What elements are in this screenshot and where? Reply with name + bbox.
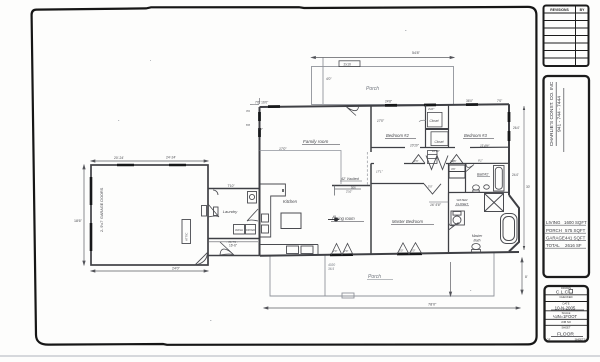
- svg-text:18'6": 18'6": [74, 219, 83, 223]
- svg-text:36'0": 36'0": [466, 99, 473, 103]
- svg-text:78'0": 78'0": [428, 302, 437, 306]
- bottom dimension 78'0": [264, 302, 520, 309]
- scanner strip bottom: [0, 355, 600, 357]
- company name vertical text: [549, 81, 564, 152]
- window marks west wall: [258, 112, 261, 137]
- title block: [545, 286, 589, 342]
- laundry walls: [208, 189, 260, 256]
- svg-text:20'-24': 20'-24': [114, 156, 124, 160]
- svg-text:CHECKED: CHECKED: [559, 295, 572, 299]
- closet arrow scribble: [419, 120, 426, 121]
- svg-text:Kitchen: Kitchen: [283, 199, 298, 204]
- company block: [544, 76, 590, 277]
- bedroom2 door triangle: [412, 155, 425, 164]
- svg-text:C.L.C: C.L.C: [556, 290, 569, 296]
- top edge small dims: [255, 99, 502, 105]
- hall bottom wall: [371, 162, 509, 164]
- svg-text:Closet: Closet: [435, 140, 444, 144]
- svg-text:441 SQFT: 441 SQFT: [565, 236, 586, 241]
- south wall door triangles dining: [331, 243, 353, 255]
- bath2 toilet: [473, 185, 480, 192]
- svg-text:2'9": 2'9": [333, 249, 337, 253]
- porch top dimension 54'0": [312, 51, 455, 81]
- svg-text:CLOSET: CLOSET: [456, 202, 469, 206]
- svg-text:7'6" 16'0": 7'6" 16'0": [255, 101, 268, 105]
- svg-text:3'0": 3'0": [399, 249, 403, 253]
- svg-text:2- 9'x7' GARAGE DOORS: 2- 9'x7' GARAGE DOORS: [100, 187, 104, 232]
- svg-text:JOB NO: JOB NO: [561, 320, 571, 324]
- svg-text:42' Vaulted: 42' Vaulted: [341, 177, 360, 181]
- svg-text:8'1": 8'1": [478, 159, 484, 163]
- garage window marks top wall: [117, 164, 186, 166]
- hall top wall: [371, 146, 509, 148]
- svg-text:54'8": 54'8": [412, 51, 421, 55]
- svg-text:30': 30': [526, 185, 531, 189]
- master bedroom label: [391, 202, 449, 224]
- svg-text:16' 5'8": 16' 5'8": [430, 203, 442, 207]
- svg-text:WASH: WASH: [235, 228, 243, 232]
- washer dryer: [234, 192, 257, 235]
- svg-text:941 - 744 - 7444: 941 - 744 - 7444: [557, 96, 563, 132]
- bath2 label: [477, 173, 490, 177]
- svg-text:2'10": 2'10": [346, 190, 352, 194]
- svg-text:8': 8': [525, 275, 528, 279]
- svg-text:Bath#2: Bath#2: [477, 173, 488, 177]
- bath2 sink: [484, 185, 490, 189]
- title block handwriting: [551, 290, 584, 338]
- bath2 door arc: [466, 164, 474, 172]
- right edge dims: [512, 106, 531, 250]
- entry door arc: [220, 242, 234, 255]
- svg-text:4'6": 4'6": [451, 167, 456, 171]
- bedroom2 label: [377, 119, 420, 147]
- svg-text:GARAGE: GARAGE: [546, 236, 565, 241]
- water heater in garage: [182, 206, 218, 244]
- svg-text:2'6": 2'6": [414, 159, 419, 163]
- svg-text:REVISIONS: REVISIONS: [550, 8, 569, 12]
- svg-text:LIVING: LIVING: [546, 220, 561, 225]
- kitchen counters left: [261, 184, 286, 237]
- south porch label: [328, 263, 393, 280]
- svg-text:575 SQFT: 575 SQFT: [565, 228, 586, 233]
- corner tick NW: [250, 98, 260, 105]
- bath2 walls: [449, 163, 510, 192]
- master toilet: [472, 244, 481, 253]
- svg-text:36.5: 36.5: [328, 267, 334, 271]
- laundry door right: [247, 209, 258, 221]
- family room label: [279, 139, 340, 151]
- garage left dimension 18'6": [74, 165, 85, 265]
- svg-text:SHEET: SHEET: [562, 326, 571, 330]
- area summary text: [545, 220, 587, 248]
- garage walls: [91, 165, 208, 265]
- svg-text:Laundry: Laundry: [223, 209, 238, 214]
- svg-text:BY: BY: [580, 8, 585, 12]
- master tub: [501, 214, 518, 244]
- window marks north wall: [268, 105, 478, 107]
- left edge dim marks family room: [246, 109, 263, 131]
- dining bar counter: [332, 185, 370, 195]
- south wall door triangles master: [397, 243, 422, 255]
- svg-text:7'0": 7'0": [497, 99, 502, 103]
- dashed ceiling line: [366, 152, 368, 185]
- svg-text:Bedroom #2: Bedroom #2: [386, 133, 409, 138]
- garage top dimension: [91, 155, 208, 162]
- linen closet: [449, 165, 465, 178]
- svg-text:17'0": 17'0": [279, 147, 287, 151]
- svg-text:5'0": 5'0": [428, 185, 433, 189]
- svg-text:6'8: 6'8: [246, 123, 250, 127]
- south porch outline: [270, 253, 494, 298]
- interior wall dining/master: [370, 106, 372, 256]
- svg-text:CHARLIE'S CONST. CO. INC: CHARLIE'S CONST. CO. INC: [549, 81, 555, 146]
- bedroom2 closet wall: [426, 105, 449, 148]
- svg-text:10'10": 10'10": [410, 143, 420, 147]
- kitchen island: [281, 213, 301, 229]
- svg-text:24'0": 24'0": [172, 267, 181, 271]
- master bedroom door triangle: [424, 184, 441, 194]
- svg-text:PORCH: PORCH: [546, 228, 562, 233]
- laundry bottom dim line: [209, 241, 258, 243]
- svg-text:Bath: Bath: [474, 239, 481, 243]
- garage door marks on left wall: [90, 177, 93, 251]
- svg-text:24.0': 24.0': [512, 173, 519, 177]
- svg-text:Master Bedroom: Master Bedroom: [392, 219, 423, 224]
- master bath door arc: [449, 222, 459, 230]
- closet labels: [428, 107, 484, 164]
- svg-text:506: 506: [351, 185, 356, 189]
- svg-text:4'0": 4'0": [326, 77, 332, 81]
- svg-text:24'8": 24'8": [385, 100, 392, 104]
- svg-text:DRYER: DRYER: [246, 228, 255, 232]
- kitchen family divider: [260, 151, 342, 185]
- water closet room and toilet: [449, 193, 465, 254]
- scan speckles: [118, 30, 471, 321]
- kitchen counters bottom: [260, 245, 318, 255]
- house exterior walls: [260, 104, 520, 256]
- bedroom3 label: [463, 133, 494, 148]
- svg-text:Master: Master: [472, 234, 483, 238]
- bath2 tub: [494, 166, 505, 192]
- north porch outline: [312, 58, 454, 105]
- svg-text:7'10": 7'10": [227, 184, 234, 188]
- svg-text:ATTIC: ATTIC: [185, 232, 189, 241]
- svg-text:2616 SF: 2616 SF: [565, 243, 582, 248]
- garage rear door arc: [195, 253, 208, 266]
- dining ceiling fan mark: [328, 215, 339, 222]
- right porch vertical dimension: [449, 258, 528, 296]
- porch header box 2x10: [339, 61, 360, 67]
- svg-text:12'10": 12'10": [432, 149, 441, 153]
- svg-text:Porch: Porch: [366, 86, 379, 92]
- hall closet shelves: [428, 151, 438, 164]
- revisions table: [544, 6, 589, 67]
- svg-text:SHEETS: SHEETS: [575, 338, 586, 342]
- garage bottom dimension 24'0": [91, 267, 208, 273]
- sliding door marks south wall: [330, 254, 422, 255]
- svg-text:26.0': 26.0': [513, 126, 520, 130]
- border frame: [32, 7, 537, 345]
- master closet strip walls: [371, 170, 424, 184]
- svg-text:TOTAL: TOTAL: [546, 243, 560, 248]
- svg-text:6'0": 6'0": [258, 127, 263, 131]
- svg-text:Closet: Closet: [430, 119, 439, 123]
- vaulted label: [340, 177, 362, 181]
- svg-text:- 4'0 7'6 -: - 4'0 7'6 -: [226, 240, 238, 244]
- svg-text:2x10: 2x10: [344, 62, 351, 66]
- svg-text:3'0": 3'0": [411, 249, 415, 253]
- svg-text:Family room: Family room: [303, 139, 328, 144]
- svg-text:17'0": 17'0": [377, 119, 385, 123]
- svg-text:3'0: 3'0: [246, 109, 250, 113]
- laundry labels: [223, 184, 255, 248]
- svg-text:Bedroom #3: Bedroom #3: [464, 133, 487, 138]
- svg-text:OF: OF: [547, 338, 551, 342]
- hall closet bifold doors: [426, 156, 448, 170]
- porch door arc: [347, 107, 359, 116]
- svg-text:11'4½": 11'4½": [480, 144, 490, 148]
- svg-text:24'-24': 24'-24': [166, 155, 176, 159]
- master bath label: [472, 234, 483, 243]
- window marks east wall: [508, 112, 511, 141]
- svg-text:1600 SQFT: 1600 SQFT: [564, 220, 587, 225]
- svg-text:4'10": 4'10": [428, 107, 435, 111]
- closet1 inner box: [427, 112, 442, 127]
- laundry door left: [208, 190, 219, 217]
- closet2 inner box: [431, 132, 448, 146]
- svg-text:17'1": 17'1": [376, 170, 384, 174]
- revisions table header text: [550, 8, 585, 12]
- shower: [485, 194, 504, 212]
- dining room label: [331, 216, 364, 221]
- bedroom3 door triangle: [450, 155, 463, 164]
- svg-text:¼IN=1FOOT: ¼IN=1FOOT: [553, 314, 578, 319]
- water closet label: [455, 198, 469, 206]
- svg-text:2'9": 2'9": [344, 249, 348, 253]
- title block labels: [547, 286, 586, 342]
